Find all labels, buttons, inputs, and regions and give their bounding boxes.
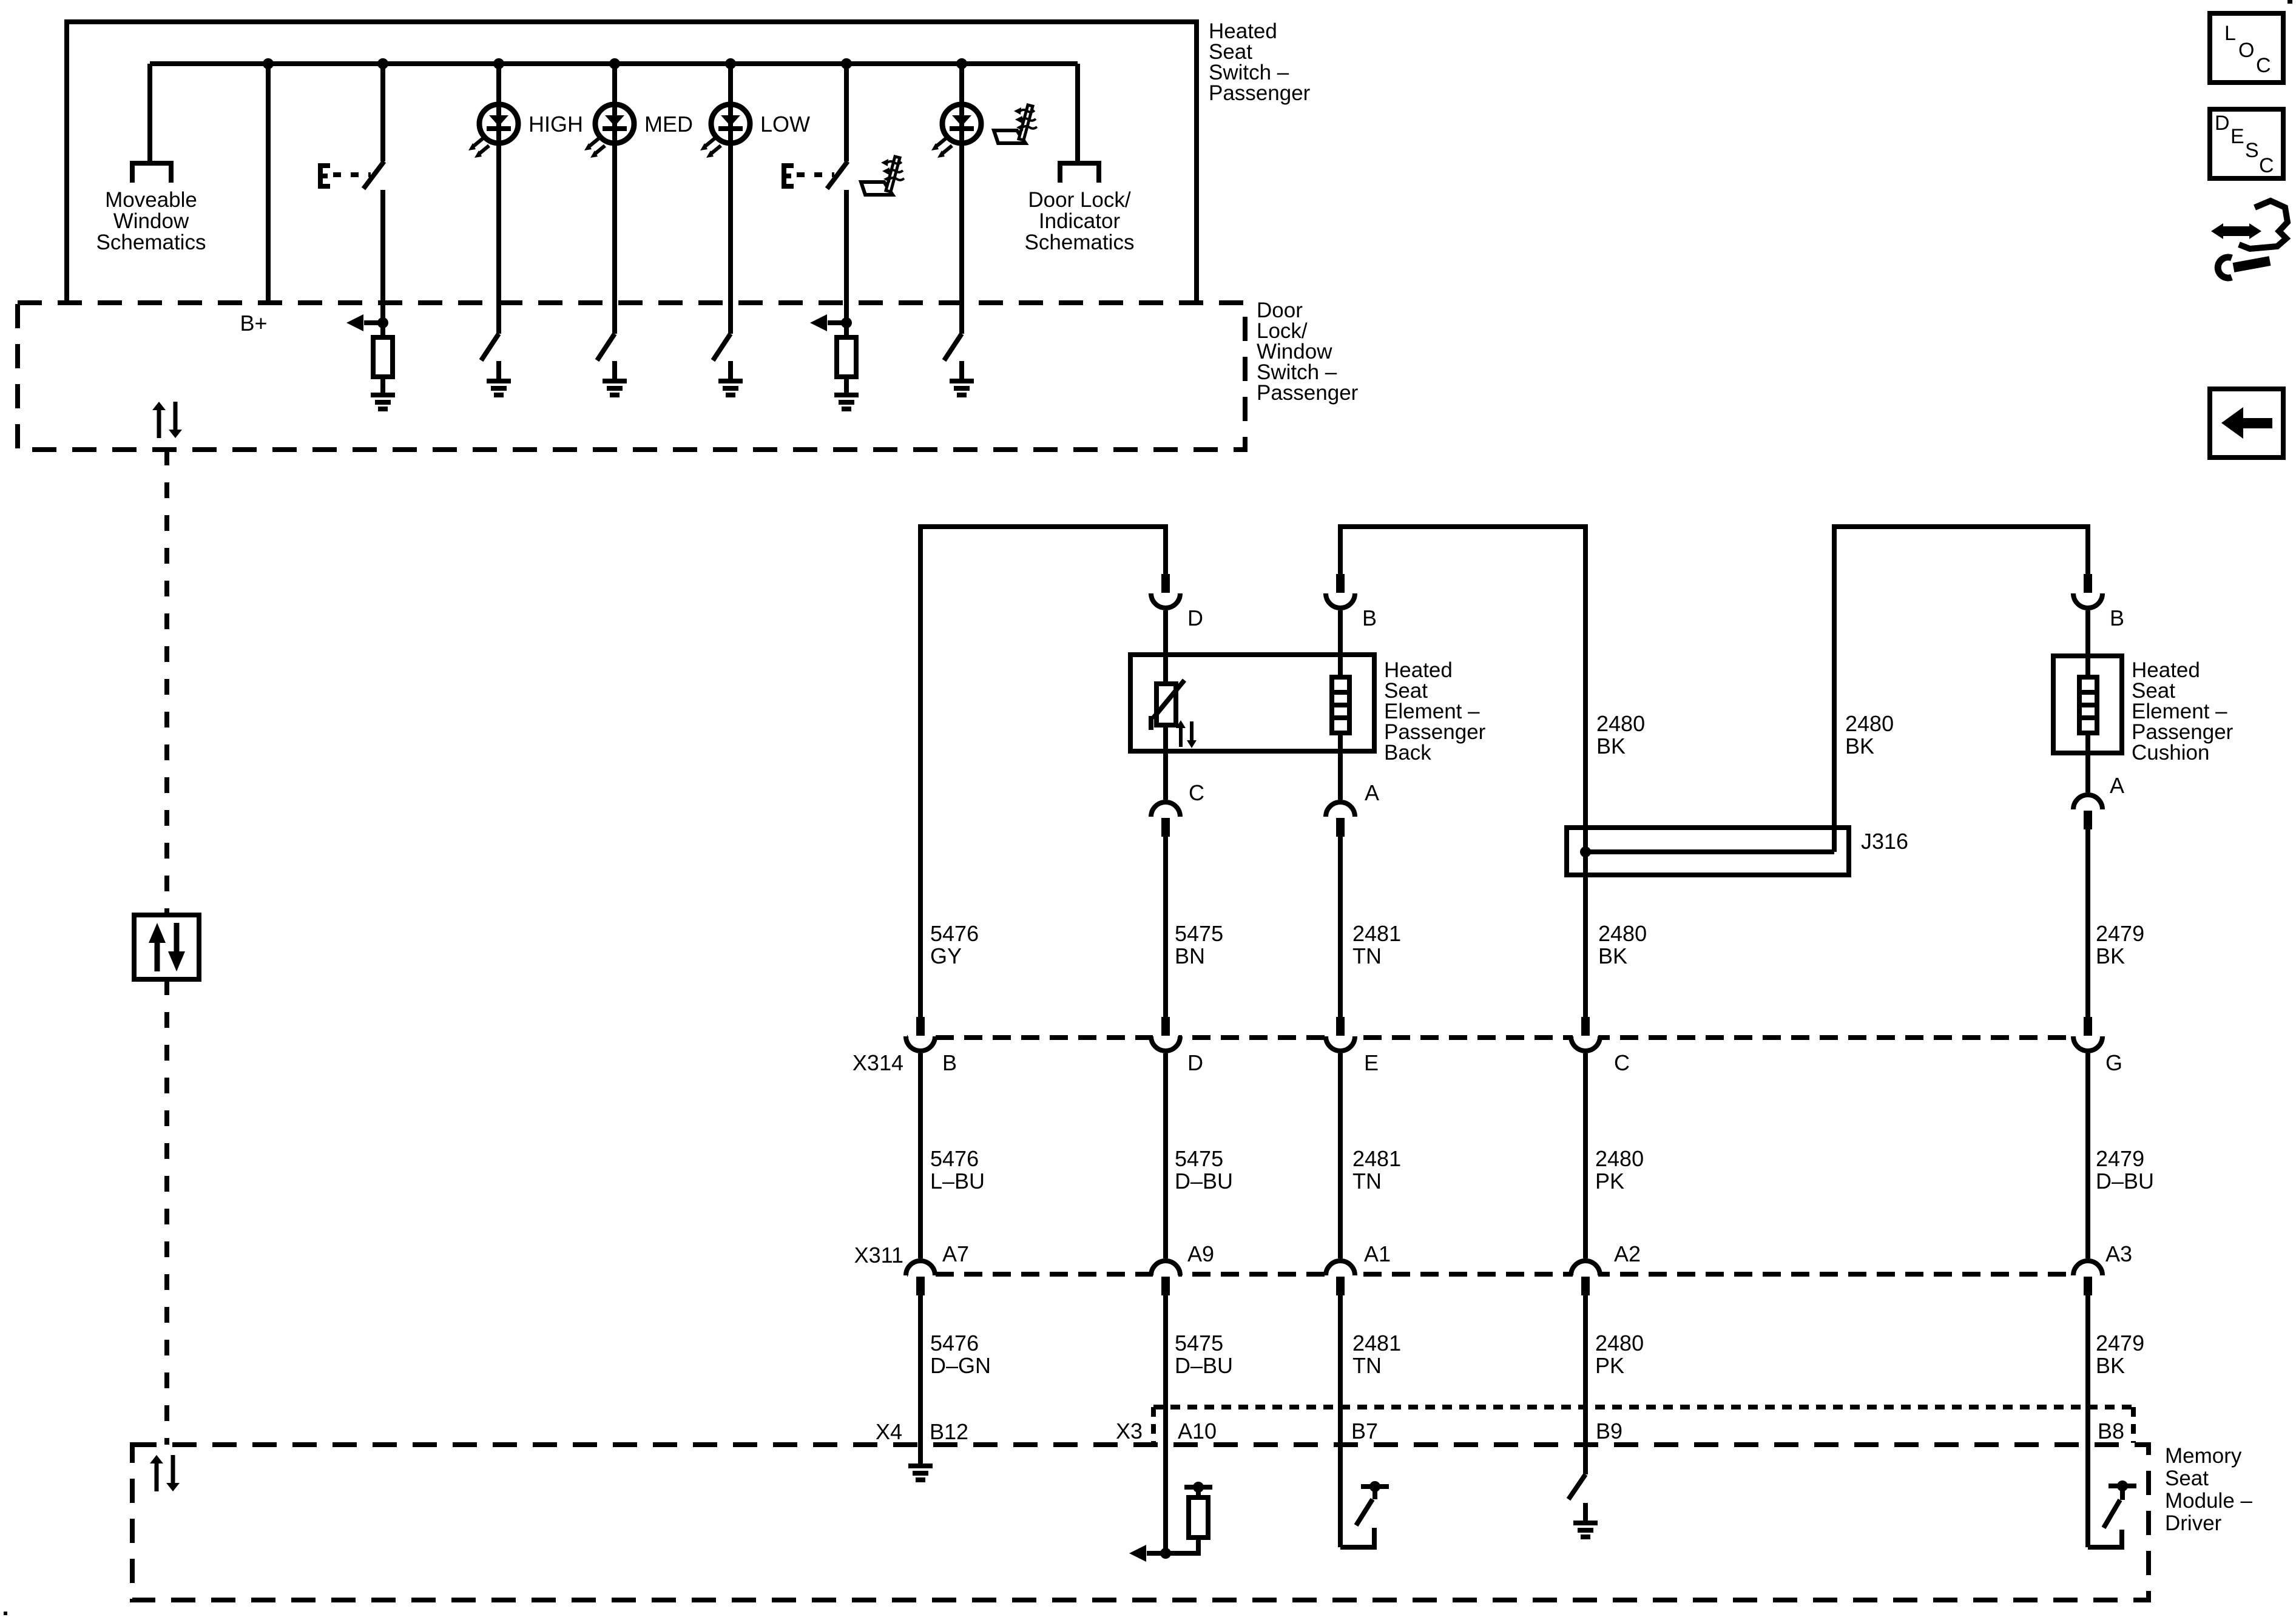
connector X311-A9	[1151, 1261, 1180, 1295]
internal switch B8	[2088, 1530, 2122, 1547]
svg-text:2481TN: 2481TN	[1352, 1331, 1401, 1378]
off-page bracket (Door Lock/Indicator Schematics)	[1060, 163, 1099, 183]
bus wire B+ feed	[150, 61, 1078, 66]
svg-text:HeatedSeatSwitch –Passenger: HeatedSeatSwitch –Passenger	[1209, 19, 1311, 105]
wire 5475	[1163, 837, 1168, 1017]
outer solid box: Heated Seat Switch - Passenger	[67, 22, 1197, 303]
svg-text:E: E	[2230, 125, 2244, 148]
off-page bracket (Moveable Window Schematics)	[132, 163, 171, 183]
svg-text:G: G	[2105, 1050, 2122, 1075]
switch to ground (LOW)	[713, 334, 731, 360]
connector row X314	[907, 1035, 2102, 1040]
svg-text:L: L	[2224, 22, 2236, 45]
switch E (driver expansion)	[318, 163, 371, 189]
splice J316	[1567, 828, 1849, 875]
svg-text:2480BK: 2480BK	[1598, 921, 1647, 968]
svg-text:DoorLock/WindowSwitch –Passeng: DoorLock/WindowSwitch –Passenger	[1257, 299, 1359, 405]
svg-text:B9: B9	[1596, 1419, 1622, 1443]
ground	[487, 361, 511, 397]
heated seat icon	[994, 105, 1037, 143]
svg-text:LOW: LOW	[760, 112, 810, 137]
svg-text:5476D–GN: 5476D–GN	[930, 1331, 991, 1378]
ground	[371, 375, 395, 411]
wire 5476 D-GN	[918, 1295, 923, 1446]
svg-text:HeatedSeatElement –PassengerBa: HeatedSeatElement –PassengerBack	[1384, 658, 1486, 765]
svg-text:A2: A2	[1614, 1241, 1641, 1266]
connector X311-A1	[1326, 1261, 1355, 1295]
connector B	[1326, 574, 1355, 608]
wire 5475 D-BU	[1163, 1053, 1168, 1258]
wire below switch	[844, 190, 849, 323]
connector X311-A7	[906, 1261, 935, 1295]
junction dots on bus	[263, 58, 967, 69]
heater element (cushion)	[2085, 610, 2090, 677]
svg-text:2480PK: 2480PK	[1595, 1146, 1644, 1193]
icon box DESC	[2210, 109, 2283, 178]
in-line connector box with up/down arrows	[134, 915, 199, 979]
svg-text:E: E	[1364, 1050, 1379, 1075]
internal switch B7	[1340, 1528, 1374, 1547]
ground	[834, 375, 859, 411]
LED MED	[612, 64, 617, 334]
connector X314-B	[906, 1017, 935, 1051]
connector X314-G	[2073, 1017, 2102, 1051]
svg-text:C: C	[2256, 54, 2271, 77]
up/down arrows (sensor)	[1176, 720, 1197, 748]
svg-text:2481TN: 2481TN	[1352, 921, 1401, 968]
switch to ground (HIGH)	[481, 334, 499, 360]
connector X311-A3	[2073, 1261, 2102, 1295]
svg-text:C: C	[1189, 780, 1204, 805]
svg-text:D: D	[1187, 606, 1203, 630]
svg-text:2479D–BU: 2479D–BU	[2096, 1146, 2154, 1193]
Heated Seat Element - Passenger Cushion box	[2053, 656, 2122, 753]
wire switch column 1	[380, 64, 385, 161]
wire 2480 top run	[1340, 527, 1585, 1017]
svg-text:HIGH: HIGH	[528, 112, 583, 137]
svg-text:B7: B7	[1351, 1419, 1378, 1443]
node junction with signal arrow (column 1)	[377, 317, 388, 328]
wire below switch	[380, 190, 385, 323]
svg-text:B8: B8	[2098, 1419, 2124, 1443]
svg-text:A: A	[1365, 780, 1379, 805]
svg-text:B: B	[1362, 606, 1377, 630]
wire 2480 PK to B9	[1583, 1295, 1588, 1474]
wire 2479	[2085, 829, 2090, 1017]
Memory Seat Module dashed box	[132, 1445, 2149, 1600]
connector B (cushion)	[2073, 574, 2102, 608]
svg-text:2480BK: 2480BK	[1845, 711, 1894, 758]
connector X314-E	[1326, 1017, 1355, 1051]
svg-text:D: D	[2215, 112, 2230, 135]
svg-text:5476L–BU: 5476L–BU	[930, 1146, 985, 1193]
wire 2481 TN	[1338, 1053, 1343, 1258]
svg-text:X3: X3	[1116, 1419, 1143, 1443]
wire below thermistor	[1163, 725, 1168, 800]
corner tick	[2288, 0, 2292, 4]
wire 2480 right run	[1834, 527, 2088, 852]
svg-text:MED: MED	[644, 112, 693, 137]
connector row X311	[907, 1272, 2102, 1277]
heater element (back)	[1338, 610, 1343, 677]
wire 2479 D-BU	[2085, 1053, 2090, 1258]
svg-text:D: D	[1187, 1050, 1203, 1075]
svg-text:X4: X4	[876, 1419, 902, 1444]
ground B12	[908, 1446, 933, 1482]
switch E (heated seat)	[782, 163, 834, 189]
svg-text:X311: X311	[854, 1243, 903, 1268]
icon tool/connector	[2211, 201, 2288, 278]
connector X314-C	[1571, 1017, 1600, 1051]
switch to ground (indicator LED)	[944, 334, 962, 360]
icon box back-arrow	[2210, 389, 2283, 457]
wire 2481 TN to B7	[1338, 1295, 1343, 1547]
LED LOW	[728, 64, 733, 334]
connector X314-D	[1151, 1017, 1180, 1051]
ground	[718, 361, 743, 397]
svg-text:A7: A7	[942, 1241, 969, 1266]
svg-text:2480PK: 2480PK	[1595, 1331, 1644, 1378]
internal switch B9 to ground	[1568, 1474, 1585, 1499]
svg-text:5475D–BU: 5475D–BU	[1175, 1146, 1233, 1193]
svg-text:C: C	[2259, 154, 2274, 177]
svg-text:A: A	[2110, 773, 2124, 798]
resistor (switch column 1)	[380, 323, 385, 337]
connector row X3 (dotted)	[1153, 1405, 2133, 1409]
svg-text:A1: A1	[1364, 1241, 1391, 1266]
svg-text:B12: B12	[930, 1419, 968, 1444]
svg-text:5475BN: 5475BN	[1175, 921, 1223, 968]
connector X311-A2	[1571, 1261, 1600, 1295]
wire to Door Lock/Indicator Schematics	[1075, 64, 1080, 161]
dashed data wire	[164, 979, 169, 1445]
up/down data arrows in switch box	[152, 402, 182, 438]
wire 2480 PK	[1583, 1053, 1588, 1258]
svg-text:B+: B+	[240, 311, 267, 336]
dashed box: Door Lock/Window Switch - Passenger	[18, 303, 1245, 450]
wire into element	[1163, 610, 1168, 684]
wire 5475 D-BU to A10	[1163, 1295, 1168, 1553]
svg-text:C: C	[1614, 1050, 1630, 1075]
svg-text:HeatedSeatElement –PassengerCu: HeatedSeatElement –PassengerCushion	[2132, 658, 2234, 765]
svg-text:Door Lock/IndicatorSchematics: Door Lock/IndicatorSchematics	[1025, 188, 1135, 254]
Heated Seat Element - Passenger Back box	[1130, 655, 1374, 751]
resistor (switch column 2)	[844, 323, 849, 337]
node junction with signal arrow (column 2)	[841, 317, 852, 328]
connector D	[1151, 574, 1180, 608]
svg-text:MemorySeatModule –Driver: MemorySeatModule –Driver	[2165, 1444, 2253, 1535]
svg-text:5475D–BU: 5475D–BU	[1175, 1331, 1233, 1378]
wire 2479 BK to B8	[2085, 1295, 2090, 1547]
internal circuit A10: junction, arrow, pull-up resistor	[1160, 1548, 1171, 1559]
svg-text:B: B	[2110, 606, 2124, 630]
connector A	[1326, 802, 1355, 837]
wire 5476 top run	[920, 527, 1166, 1017]
svg-text:O: O	[2238, 39, 2254, 62]
connector C	[1151, 802, 1180, 837]
ground	[603, 361, 627, 397]
svg-text:2479BK: 2479BK	[2096, 921, 2144, 968]
svg-text:S: S	[2245, 139, 2259, 162]
svg-text:2479BK: 2479BK	[2096, 1331, 2144, 1378]
wire 2481	[1338, 837, 1343, 1017]
switch to ground (MED)	[597, 334, 615, 360]
svg-text:X314: X314	[853, 1050, 903, 1075]
wire to Moveable Window Schematics	[147, 64, 152, 161]
svg-text:5476GY: 5476GY	[930, 921, 979, 968]
wire B+	[266, 64, 271, 303]
svg-text:2480BK: 2480BK	[1596, 711, 1645, 758]
svg-text:J316: J316	[1861, 829, 1908, 854]
svg-text:A3: A3	[2105, 1241, 2132, 1266]
svg-text:MoveableWindowSchematics: MoveableWindowSchematics	[96, 188, 206, 254]
icon box LOC	[2210, 13, 2283, 83]
thermistor	[1156, 684, 1176, 725]
wire 5476 L-BU	[918, 1053, 923, 1258]
LED HIGH	[496, 64, 501, 334]
svg-text:A9: A9	[1187, 1241, 1214, 1266]
LED indicator (heated seat)	[959, 64, 964, 334]
svg-text:2481TN: 2481TN	[1352, 1146, 1401, 1193]
wire switch column 2	[844, 64, 849, 161]
dashed data wire	[164, 450, 169, 915]
svg-text:A10: A10	[1178, 1419, 1217, 1443]
ground	[950, 361, 974, 397]
stray period	[4, 1612, 7, 1615]
connector A (cushion)	[2073, 795, 2102, 829]
heated seat icon	[861, 157, 904, 195]
up/down data arrows in module	[150, 1455, 180, 1491]
svg-text:B: B	[942, 1050, 957, 1075]
